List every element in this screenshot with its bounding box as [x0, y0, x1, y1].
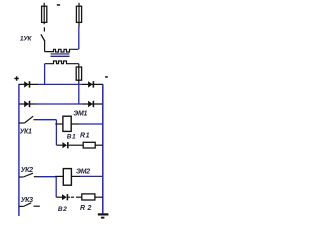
wire ЭМ2 to right bus — [71, 175, 80, 177]
AC dash mark — [57, 4, 60, 6]
diode В2 — [62, 194, 68, 200]
diode D1 — [24, 81, 30, 87]
wire fuse to lower rectifier row (blue) — [78, 84, 80, 104]
svg-text:ЭМ2: ЭМ2 — [76, 169, 90, 176]
В1 R1 row wire — [56, 144, 62, 146]
svg-text:R1: R1 — [80, 132, 90, 139]
plus mark — [14, 76, 18, 80]
wire В1 to R1 — [69, 144, 84, 146]
junction vertical (blue) — [55, 120, 57, 146]
right bus (blue) — [102, 84, 104, 213]
left bus (blue) — [18, 84, 20, 216]
minus mark — [105, 76, 108, 78]
diode В1 — [62, 142, 68, 148]
wire secondary left down (blue) — [44, 64, 46, 85]
wire ЭМ1 to right bus — [71, 123, 79, 125]
resistor R1 — [83, 142, 95, 148]
wire R2 to bus — [95, 196, 103, 198]
svg-text:В1: В1 — [67, 133, 76, 140]
wire УК2 to junction (blue) — [39, 176, 56, 178]
wire УК1 to junction (blue) — [39, 119, 57, 121]
resistor R2 — [82, 194, 95, 200]
svg-text:ЭМ1: ЭМ1 — [73, 111, 87, 118]
svg-text:1УК: 1УК — [20, 36, 33, 43]
svg-text:R2: R2 — [80, 205, 94, 212]
transformer core line 2 — [51, 55, 70, 57]
transformer secondary winding — [45, 61, 79, 64]
В2 R2 row wire — [56, 196, 62, 198]
relay coil ЭМ1 — [63, 116, 71, 131]
switch 1УК dashed link — [43, 27, 45, 31]
svg-text:УК3: УК3 — [21, 197, 33, 204]
wire (blue) fuse FU2 down to transformer primary — [78, 27, 80, 49]
wire В2 to R2 (dashed look) — [68, 196, 70, 198]
junction vertical 2 (blue) — [55, 177, 57, 198]
switch 1УК blade — [41, 34, 45, 41]
diode D3 — [24, 101, 30, 107]
wire switch to primary — [44, 42, 46, 52]
transformer core line 1 — [51, 53, 70, 55]
svg-text:УК2: УК2 — [21, 167, 33, 174]
contact УК2 — [19, 173, 39, 177]
top rectifier row wires — [19, 83, 39, 85]
fuse FU3 (secondary fuse) — [76, 64, 81, 85]
svg-text:УК1: УК1 — [20, 129, 32, 136]
bottom rectifier row wires — [19, 103, 37, 105]
fuse FU2 (right mains fuse) — [76, 3, 81, 27]
contact УК3 — [19, 203, 40, 207]
relay coil ЭМ2 — [63, 169, 71, 186]
wire to coil ЭМ2 — [55, 175, 63, 177]
wire to coil ЭМ1 — [55, 123, 63, 125]
wire R1 to bus — [95, 144, 103, 146]
svg-text:В2: В2 — [58, 206, 67, 213]
diode D2 — [88, 81, 94, 87]
fuse FU1 (left mains fuse) — [42, 3, 47, 24]
transformer primary winding — [45, 49, 79, 52]
diode D4 — [88, 101, 94, 107]
contact УК1 — [19, 116, 39, 123]
ground — [98, 213, 109, 218]
